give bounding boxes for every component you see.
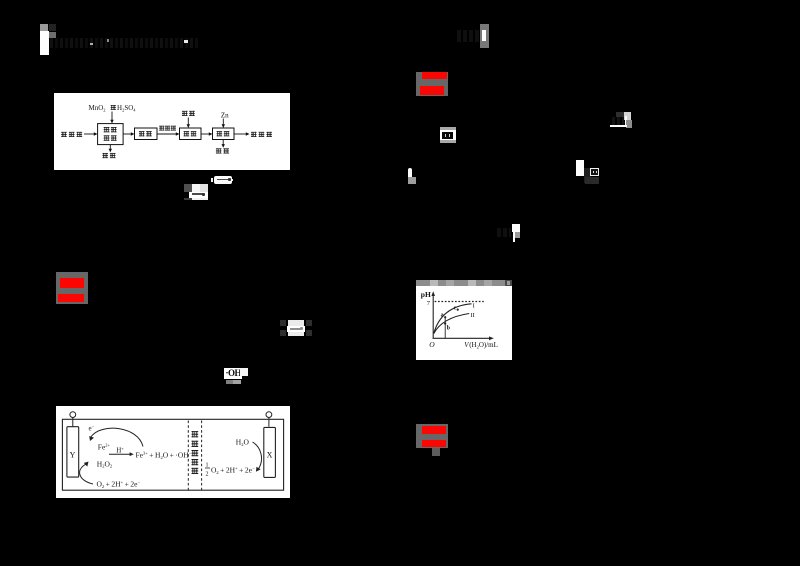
- svg-text:X: X: [267, 451, 273, 460]
- svg-text:O: O: [429, 340, 435, 349]
- frag610 dark square: [616, 112, 624, 119]
- frag610 light box: [624, 112, 631, 120]
- 铅烟灰: [61, 132, 67, 137]
- frag576 white rect: [576, 160, 584, 176]
- mid fragment dark corner TR: [306, 320, 312, 326]
- frag512 white rect: [512, 224, 520, 233]
- fragment A arrow head: [228, 178, 231, 181]
- svg-text:a: a: [441, 313, 444, 319]
- mid fragment dark corner BR: [306, 330, 312, 336]
- absorb fragment gray bg: [440, 127, 456, 143]
- down arrow from box4 + 滤液: [222, 140, 224, 145]
- curves: [434, 304, 472, 334]
- svg-text:H2O2: H2O2: [97, 459, 112, 468]
- mid fragment gray arrow head: [300, 327, 303, 330]
- left red bar 1: [60, 278, 84, 288]
- title highlight gray square: [40, 24, 48, 32]
- topright faint glyphs: [457, 30, 479, 42]
- O2 fragment white blob: [408, 168, 413, 179]
- fragment B arrow head: [202, 193, 205, 196]
- fragment B gray square: [184, 184, 192, 192]
- pH graph panel: [416, 286, 512, 360]
- svg-text:H2O: H2O: [236, 438, 250, 447]
- arrow box3->box4: [201, 133, 210, 135]
- fragment B light box: [192, 184, 208, 192]
- frag512 white sliver: [513, 232, 515, 241]
- left red answer block gray bg: [56, 272, 88, 304]
- fragment B dark strip: [184, 198, 192, 200]
- 盐酸 + down arrow: [182, 111, 188, 116]
- arrow to box1: [84, 133, 95, 135]
- title faint text row: [50, 38, 198, 48]
- right red bar 2: [420, 86, 444, 95]
- svg-text:II: II: [471, 312, 475, 319]
- bottom red bar 2: [422, 440, 446, 447]
- flowchart panel (lead fume -> sponge indium process): [54, 93, 290, 170]
- fragment A nub: [232, 179, 233, 181]
- bottom red answer block gray bg: [416, 424, 448, 448]
- box1 高温酸浸: [98, 124, 124, 145]
- fragment B lighter right part: [192, 184, 200, 192]
- arrow box2->box3: [157, 133, 177, 135]
- frag610 gray square: [626, 120, 632, 128]
- box2 萃取: [135, 128, 158, 140]
- absorb fragment white box: [440, 130, 456, 141]
- bottom red bar 1: [422, 426, 446, 434]
- svg-text:c: c: [454, 305, 457, 311]
- svg-text:(H2O)/mL: (H2O)/mL: [469, 341, 498, 349]
- OH fragment gray bar right: [233, 380, 240, 384]
- right red answer block gray bg: [416, 72, 448, 96]
- mid fragment white band: [287, 326, 305, 332]
- svg-text:Zn: Zn: [221, 112, 229, 120]
- e- arc arrow: [91, 428, 143, 446]
- absorb fragment white tick 1: [445, 134, 446, 136]
- fragment B arrow line: [192, 193, 205, 195]
- pH panel band dark tail: [505, 280, 512, 286]
- points + labels a b c: [444, 316, 446, 318]
- frag610 faint glyphs: [612, 117, 624, 125]
- OH fragment text: [226, 368, 242, 379]
- title light speck: [90, 43, 93, 45]
- absorb fragment black rect: [442, 132, 453, 139]
- frag610 white underline: [610, 125, 627, 127]
- mid fragment gray arrow: [290, 328, 302, 330]
- membrane dashed lines: [187, 421, 189, 491]
- box4 置换: [213, 128, 235, 140]
- shared defs: synthetic CJK glyph + arrowheads: [0, 0, 1, 1]
- svg-text:Y: Y: [70, 451, 76, 460]
- frag576 below dark: [585, 177, 599, 184]
- mid fragment dark corner TL: [280, 320, 286, 326]
- svg-text:I: I: [473, 303, 475, 310]
- title white vertical bar: [40, 31, 49, 55]
- frag512 gray square: [515, 232, 520, 237]
- pH panel gray band: [416, 280, 511, 286]
- absorb fragment white tick 2: [449, 134, 450, 136]
- down arrow from box1 + 滤渣: [109, 145, 111, 150]
- svg-text:MnO2: MnO2: [89, 104, 110, 112]
- OH fragment white box: [224, 368, 242, 380]
- OH fragment side box: [240, 368, 248, 376]
- right red bar 1: [422, 72, 447, 79]
- title gray square 2: [49, 32, 56, 38]
- axes: [432, 295, 434, 339]
- bottom red block gray tab: [432, 448, 440, 456]
- OH fragment gray bar left: [226, 380, 234, 384]
- dashed 7-line: [435, 301, 484, 303]
- title white speck: [184, 40, 188, 43]
- mid fragment dark corner BL: [280, 330, 286, 336]
- frag576 outlined square: [590, 168, 599, 176]
- frag512 faint glyphs: [497, 228, 511, 237]
- title light speck 2: [107, 39, 109, 42]
- frag576 dark patch: [584, 168, 591, 183]
- outer cell rectangle: [62, 419, 283, 490]
- frag576 inner dot 2: [596, 171, 598, 173]
- title dark square: [49, 24, 56, 31]
- svg-text:2: 2: [206, 472, 209, 478]
- frag576 inner dot 1: [593, 171, 595, 173]
- topright white bar: [482, 30, 486, 41]
- condition-arrow fragment A tick: [211, 178, 213, 182]
- arrow box1->box2: [123, 133, 131, 135]
- fragment B white arrow box: [189, 192, 208, 198]
- pH band tail light patch: [507, 281, 510, 285]
- mid fragment light box: [288, 320, 304, 336]
- O2 fragment gray square: [408, 177, 416, 184]
- membrane label chars: [191, 431, 198, 437]
- electrochemical cell panel: [56, 406, 290, 498]
- condition-arrow fragment A: [214, 176, 232, 184]
- fragment B white strip: [192, 198, 208, 200]
- electrodes: [67, 427, 79, 477]
- left red bar 2: [58, 294, 84, 302]
- vertical sample line: [444, 317, 446, 339]
- lower-left arc arrow: [80, 464, 93, 484]
- 有机液 label: [159, 126, 164, 131]
- arrow box4 -> 海绵铟: [234, 133, 247, 135]
- terminals: [72, 417, 74, 426]
- right arc arrow: [253, 442, 262, 469]
- svg-text:pH: pH: [421, 290, 431, 299]
- box3 反萃: [180, 128, 202, 140]
- down arrow from MnO2 label: [111, 112, 113, 121]
- topright gray block: [480, 24, 489, 48]
- frag610 white vbar: [625, 116, 628, 127]
- fragment A arrow line: [217, 179, 229, 181]
